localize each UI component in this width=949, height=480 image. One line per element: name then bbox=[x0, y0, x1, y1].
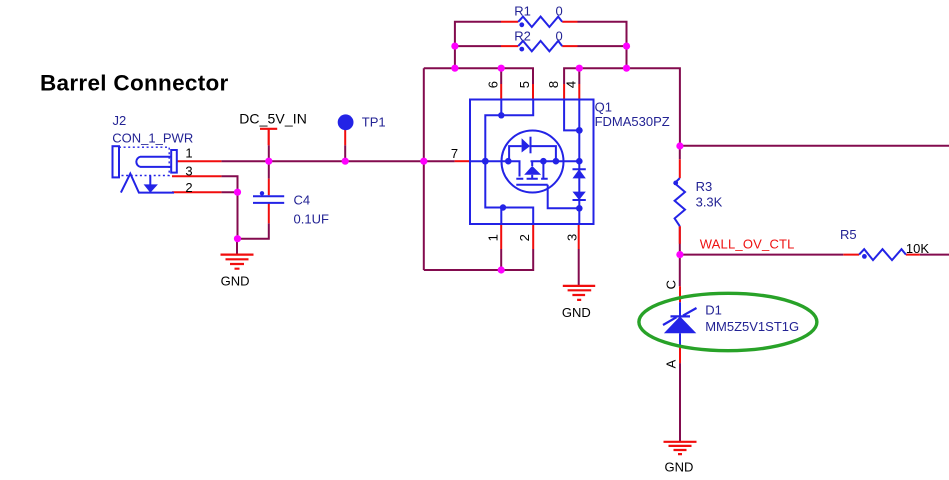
svg-text:CON_1_PWR: CON_1_PWR bbox=[112, 130, 193, 145]
svg-text:3: 3 bbox=[565, 234, 580, 241]
svg-text:Barrel Connector: Barrel Connector bbox=[40, 71, 229, 96]
svg-text:8: 8 bbox=[546, 81, 561, 88]
svg-text:R2: R2 bbox=[514, 28, 531, 43]
svg-text:C: C bbox=[663, 280, 678, 289]
svg-text:D1: D1 bbox=[705, 303, 722, 318]
svg-text:GND: GND bbox=[562, 305, 591, 320]
svg-text:J2: J2 bbox=[113, 113, 127, 128]
svg-text:WALL_OV_CTL: WALL_OV_CTL bbox=[700, 237, 795, 252]
svg-text:1: 1 bbox=[185, 146, 192, 161]
svg-text:5: 5 bbox=[517, 81, 532, 88]
svg-text:R3: R3 bbox=[696, 179, 713, 194]
svg-text:3.3K: 3.3K bbox=[696, 194, 723, 209]
svg-text:0: 0 bbox=[556, 28, 563, 43]
svg-text:4: 4 bbox=[564, 81, 579, 88]
svg-text:TP1: TP1 bbox=[362, 115, 386, 130]
svg-text:A: A bbox=[664, 359, 679, 368]
svg-text:2: 2 bbox=[185, 180, 192, 195]
svg-text:GND: GND bbox=[665, 459, 694, 474]
svg-text:6: 6 bbox=[486, 81, 501, 88]
svg-text:R5: R5 bbox=[840, 227, 857, 242]
svg-text:Q1: Q1 bbox=[595, 100, 612, 115]
svg-text:FDMA530PZ: FDMA530PZ bbox=[595, 114, 670, 129]
svg-text:0: 0 bbox=[556, 4, 563, 19]
svg-text:7: 7 bbox=[451, 146, 458, 161]
svg-text:GND: GND bbox=[221, 274, 250, 289]
svg-text:2: 2 bbox=[517, 234, 532, 241]
svg-text:MM5Z5V1ST1G: MM5Z5V1ST1G bbox=[705, 319, 799, 334]
svg-text:0.1UF: 0.1UF bbox=[294, 211, 329, 226]
svg-text:R1: R1 bbox=[514, 4, 531, 19]
svg-text:DC_5V_IN: DC_5V_IN bbox=[239, 111, 307, 127]
svg-text:1: 1 bbox=[486, 234, 501, 241]
svg-text:10K: 10K bbox=[906, 241, 929, 256]
svg-text:3: 3 bbox=[185, 164, 192, 179]
svg-text:C4: C4 bbox=[294, 192, 311, 207]
